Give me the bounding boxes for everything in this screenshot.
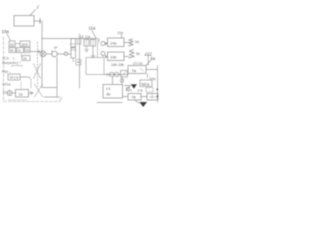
cylinder ticks [70,44,77,50]
svg-text:7a: 7a [132,68,137,73]
svg-text:MCa: MCa [142,82,150,86]
bottom line [123,96,128,98]
leg left [112,77,114,85]
gauge circle B [101,52,105,56]
gauge circle A [101,42,105,46]
bank right drop wire [97,39,99,58]
spring 5a [129,39,134,46]
dashed tick [20,82,22,90]
svg-text:12a: 12a [85,35,91,39]
bank marks [87,40,94,47]
svg-text:14a: 14a [110,42,117,46]
leg right [121,77,123,85]
under line [97,102,122,104]
sensor box [140,80,152,87]
arrow into sum [3,92,7,94]
small component on return [77,39,81,45]
controller box 7 [14,16,34,27]
tank wedge dark [140,102,148,107]
junction dot lower [156,96,158,98]
cylinder piston mark [72,47,76,48]
pump circle lower [110,72,114,76]
enclosure bottom border [4,101,60,103]
svg-text:a: a [29,76,31,80]
svg-text:100a: 100a [2,83,11,87]
motor box 6a [128,66,146,74]
leader line to 7 [30,10,36,16]
svg-text:1b: 1b [10,49,14,53]
right bus down [157,66,159,100]
ECU row1 box a [9,41,15,47]
long return line [79,34,81,88]
return line component [76,60,81,66]
valve arrow V2 [35,84,43,97]
manifold lower [104,74,128,76]
cylinder stem [72,58,74,62]
arrow sum to box [12,92,16,94]
pump line [47,53,65,55]
small circle cluster [126,87,129,90]
svg-text:Aw(avbv)·¹: Aw(avbv)·¹ [2,60,21,65]
block outline [86,58,104,75]
arrow to valve A [99,39,107,45]
drain vertical center [56,58,58,98]
enclosure left border [3,37,5,102]
motor circle lower [114,72,118,76]
dashed tick2 [30,79,32,88]
valve box A [108,38,125,47]
svg-text:8b: 8b [107,93,111,97]
tank glyph b [91,56,95,58]
junction x [107,73,110,76]
svg-text:¹ †: ¹ † [128,89,132,93]
svg-text:PM·–: PM·– [2,70,12,74]
wire gauge to cylinder [68,53,71,55]
svg-text:7: 7 [36,5,40,11]
small circle on leg [120,79,123,82]
small box mid right [146,88,153,93]
relay wire [141,96,147,98]
double arrow [29,92,34,95]
arrow from valve A [124,42,129,44]
svg-text:14b 15b: 14b 15b [111,63,124,67]
svg-text:11a: 11a [89,26,96,31]
svg-text:x̄ x̄: x̄ x̄ [106,87,111,91]
valve box B [108,52,125,61]
valve bank box b [91,40,96,47]
svg-text:(1Ca): (1Ca) [133,62,143,66]
arrow from valve B [124,56,129,58]
sensor stub [147,74,149,78]
ECU row2 box b [17,48,24,53]
dashed signal line [37,42,39,86]
ECU row2 box c [25,48,31,53]
return component mark [77,61,80,63]
tank box bottom [103,85,123,99]
valve bank box a [84,40,89,47]
label 15a tick [121,35,123,39]
drain foot [44,96,60,98]
svg-text:8a: 8a [151,56,156,61]
regulator box [16,90,29,98]
wire box to bus [34,20,41,22]
row4 bracket [12,66,22,68]
dark valve wedge [131,84,137,89]
row2 wire to bus [30,50,40,52]
svg-text:10a: 10a [2,29,10,34]
spring 5b [129,50,134,58]
svg-text:1b·|·a: 1b·|·a [10,76,19,80]
connector tick [39,19,41,24]
row5 wire [20,76,28,78]
svg-text:5a: 5a [135,40,139,44]
cylinder body [71,39,76,59]
svg-text:5b: 5b [136,52,140,56]
vert dash under row2 [20,54,22,58]
pump P2 [52,51,58,57]
svg-text:1d: 1d [25,49,29,53]
wedge lines [125,86,131,91]
tank symbol mid right [145,52,152,65]
small gauge circle [64,52,67,55]
bus tail [157,100,159,103]
pump P1 crossed circle [40,51,46,57]
relay marks2 [150,95,156,99]
enclosure corner tick [60,97,63,102]
component box mark [122,72,127,76]
relay box right [147,94,158,101]
svg-text:1a·b: 1a·b [21,42,28,46]
summing cross [8,91,11,94]
pump P2 tick [52,51,53,52]
relay box left [128,94,141,101]
leader 11a [92,31,96,39]
ECU row5 box a [8,74,20,80]
junction dot upper [156,89,158,91]
pump P1 cross [41,52,45,56]
ECU row2 box a [9,48,16,53]
component box on manifold [121,71,128,78]
wire motor right [146,69,158,71]
valve arrow V [34,64,41,79]
row3 box [22,56,30,61]
arrow to valve B [103,55,107,57]
bus wire down left [42,21,57,88]
tank glyph a [85,46,89,52]
svg-text:·7b: ·7b [131,96,136,100]
svg-text:1a: 1a [10,42,14,46]
svg-text:14b: 14b [110,56,116,60]
motor mark [140,68,144,72]
row1 wire [15,43,20,45]
svg-text:15a: 15a [117,31,123,35]
manifold top [42,38,98,40]
svg-text:1e: 1e [23,57,27,61]
ECU row1 box b [20,41,30,47]
summing circle [7,91,12,96]
wedge stub [135,100,140,104]
leader [7,34,11,41]
svg-text:1a: 1a [19,93,23,97]
svg-text:9*: 9* [54,46,58,50]
svg-text:1c: 1c [17,49,21,53]
bank leg b [92,46,94,56]
under line [8,99,27,101]
leader 8a [146,60,151,66]
svg-text:x·a: x·a [138,89,143,93]
